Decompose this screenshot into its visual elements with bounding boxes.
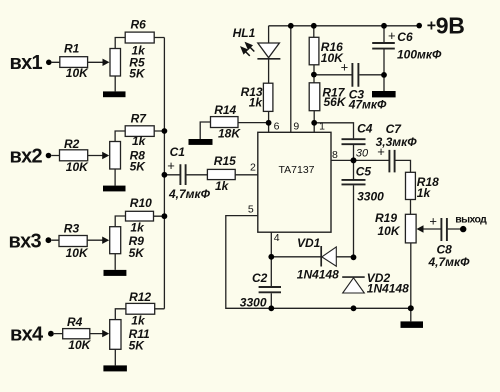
svg-text:3300: 3300 xyxy=(357,190,384,204)
svg-text:5K: 5K xyxy=(129,339,146,353)
svg-text:+: + xyxy=(429,214,437,229)
svg-text:10K: 10K xyxy=(66,246,89,260)
svg-text:TA7137: TA7137 xyxy=(279,164,315,176)
svg-text:10K: 10K xyxy=(68,338,91,352)
svg-text:+: + xyxy=(167,158,175,173)
svg-text:47мкФ: 47мкФ xyxy=(348,98,387,112)
svg-text:R10: R10 xyxy=(130,196,152,210)
svg-text:вх2: вх2 xyxy=(10,145,43,167)
svg-text:C4: C4 xyxy=(357,121,373,135)
svg-text:1k: 1k xyxy=(417,186,432,200)
svg-text:2: 2 xyxy=(250,161,256,173)
svg-text:вх1: вх1 xyxy=(10,52,43,74)
svg-text:10K: 10K xyxy=(378,224,401,238)
svg-text:R1: R1 xyxy=(64,41,80,55)
svg-text:R19: R19 xyxy=(375,211,397,225)
svg-text:R3: R3 xyxy=(64,221,80,235)
svg-text:6: 6 xyxy=(274,121,280,133)
svg-text:1k: 1k xyxy=(131,314,146,328)
svg-text:9В: 9В xyxy=(436,13,465,39)
svg-text:10K: 10K xyxy=(66,66,89,80)
svg-text:10K: 10K xyxy=(66,160,89,174)
svg-text:вх3: вх3 xyxy=(9,230,42,252)
svg-text:9: 9 xyxy=(293,121,299,133)
svg-text:5: 5 xyxy=(248,204,254,216)
svg-text:3300: 3300 xyxy=(240,296,267,310)
svg-text:VD1: VD1 xyxy=(297,236,321,250)
svg-text:R6: R6 xyxy=(131,17,147,31)
svg-text:5K: 5K xyxy=(130,160,147,174)
svg-text:18K: 18K xyxy=(218,127,241,141)
svg-text:4,7мкФ: 4,7мкФ xyxy=(428,255,471,269)
svg-text:4,7мкФ: 4,7мкФ xyxy=(168,187,211,201)
svg-text:+: + xyxy=(341,60,349,75)
svg-text:56K: 56K xyxy=(324,95,347,109)
svg-text:+: + xyxy=(388,28,396,43)
svg-text:+: + xyxy=(427,17,436,34)
svg-text:R12: R12 xyxy=(129,290,151,304)
svg-text:1: 1 xyxy=(319,120,325,132)
svg-text:30: 30 xyxy=(356,148,369,160)
svg-text:вх4: вх4 xyxy=(10,323,44,345)
svg-text:C5: C5 xyxy=(356,165,372,179)
svg-text:R14: R14 xyxy=(214,103,236,117)
svg-text:выход: выход xyxy=(455,214,487,226)
svg-text:R7: R7 xyxy=(131,112,148,126)
svg-text:5K: 5K xyxy=(129,246,146,260)
svg-text:R4: R4 xyxy=(67,315,83,329)
svg-text:4: 4 xyxy=(274,232,280,244)
svg-text:1k: 1k xyxy=(249,95,264,109)
svg-text:HL1: HL1 xyxy=(233,26,256,40)
svg-text:8: 8 xyxy=(332,149,338,161)
svg-text:R2: R2 xyxy=(64,137,80,151)
svg-text:R15: R15 xyxy=(214,154,236,168)
svg-text:C6: C6 xyxy=(397,30,413,44)
svg-text:+: + xyxy=(377,144,385,159)
svg-text:100мкФ: 100мкФ xyxy=(397,48,442,62)
svg-text:1k: 1k xyxy=(132,134,147,148)
svg-text:1N4148: 1N4148 xyxy=(367,282,409,296)
svg-text:5K: 5K xyxy=(129,67,146,81)
svg-text:1N4148: 1N4148 xyxy=(297,268,339,282)
svg-text:1k: 1k xyxy=(215,179,230,193)
svg-text:C2: C2 xyxy=(252,271,268,285)
svg-text:1k: 1k xyxy=(130,220,145,234)
